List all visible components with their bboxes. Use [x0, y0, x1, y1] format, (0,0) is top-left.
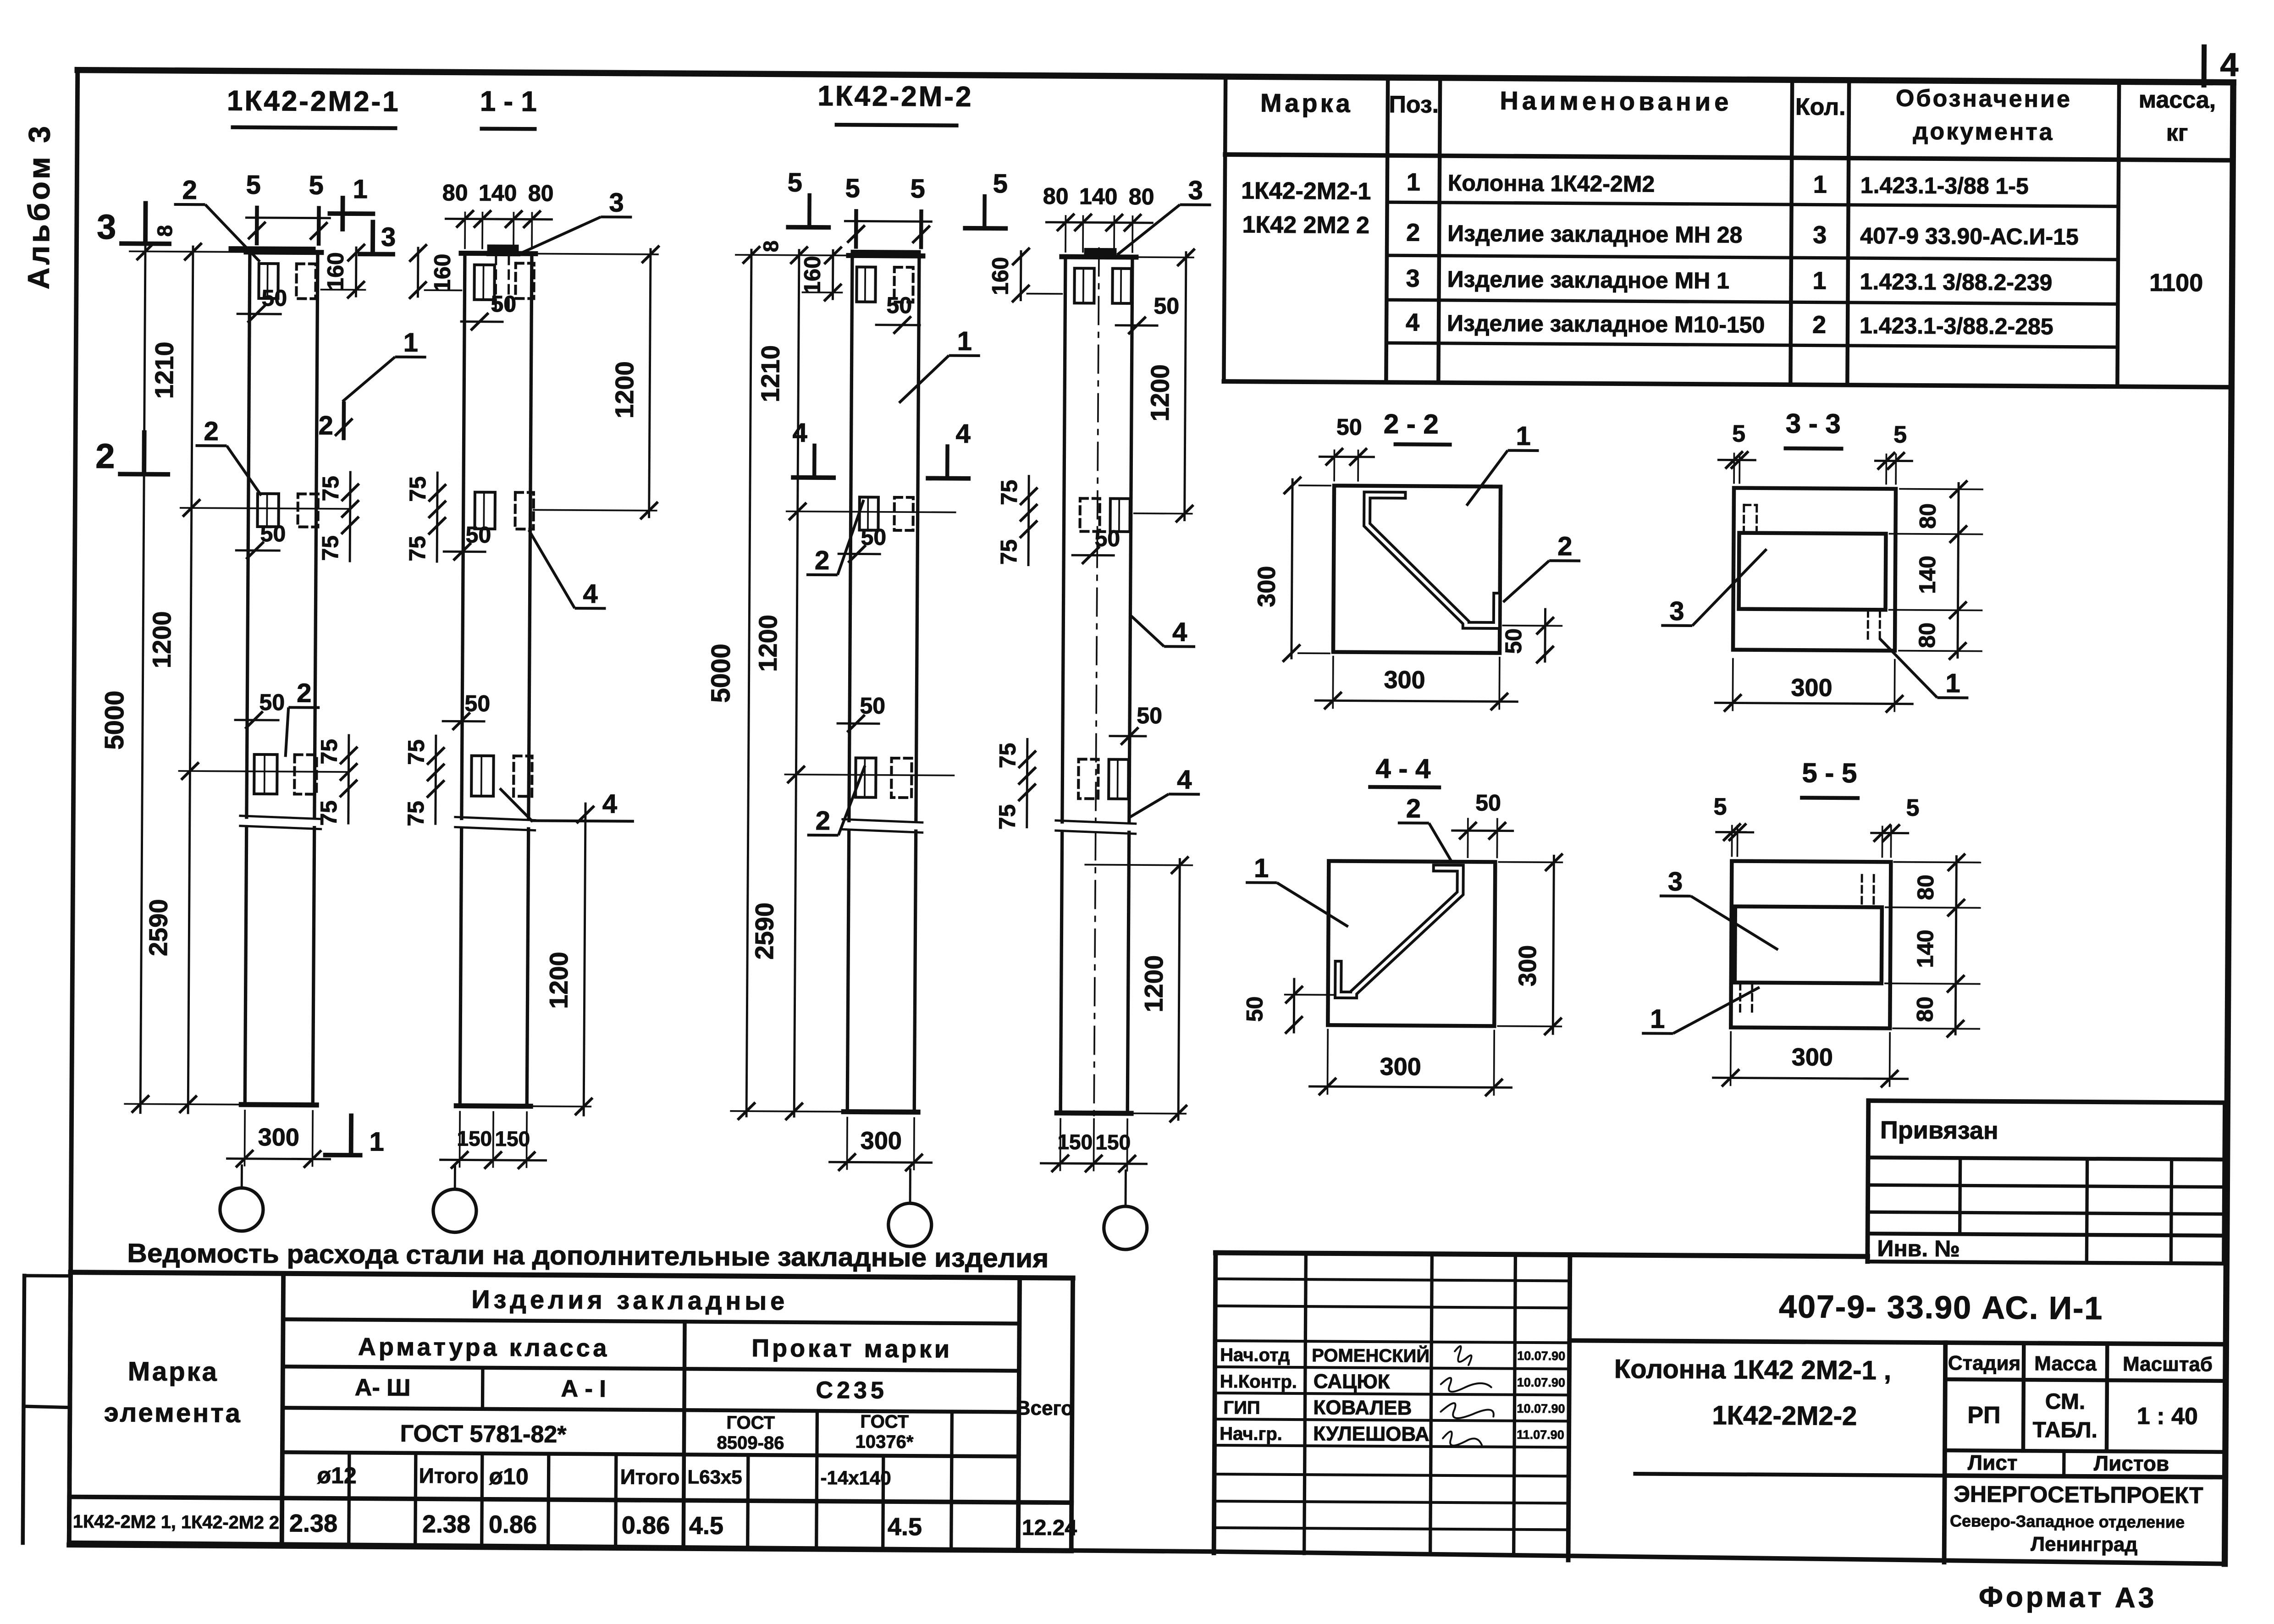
svg-text:2.38: 2.38	[289, 1509, 337, 1537]
svg-text:4: 4	[792, 418, 807, 448]
svg-text:1200: 1200	[753, 615, 783, 672]
centerline column D	[1096, 248, 1099, 822]
5-5 channel pos.3	[1735, 907, 1882, 984]
svg-text:5 - 5: 5 - 5	[1802, 757, 1857, 788]
drawing frame border	[77, 70, 2233, 83]
svg-text:Итого: Итого	[620, 1465, 680, 1489]
section 3-3 square	[1733, 488, 1896, 650]
plate B top2	[515, 263, 534, 298]
title block	[1215, 1253, 1867, 1256]
svg-text:2: 2	[816, 806, 831, 836]
svg-text:Привязан: Привязан	[1880, 1116, 1998, 1144]
svg-text:80: 80	[528, 180, 554, 206]
axis bubble D	[1104, 1206, 1147, 1250]
svg-text:5: 5	[910, 174, 925, 204]
svg-text:КОВАЛЕВ: КОВАЛЕВ	[1313, 1396, 1412, 1419]
svg-text:75: 75	[316, 800, 342, 826]
column 1K42-2M2-1 elevation outline	[247, 252, 250, 817]
signature squiggle 1	[1455, 1346, 1472, 1365]
dim 50 low	[235, 719, 278, 721]
svg-text:80: 80	[1043, 183, 1069, 209]
svg-text:160: 160	[799, 256, 825, 294]
svg-text:50: 50	[1475, 790, 1501, 815]
4-4 dim 300 bottom	[1327, 1029, 1329, 1094]
section mark 1 bottom	[349, 1116, 353, 1153]
svg-text:75: 75	[316, 739, 342, 765]
svg-text:4: 4	[583, 579, 598, 609]
2-2 dim 300 bottom	[1332, 656, 1334, 708]
svg-text:Формат А3: Формат А3	[1979, 1581, 2157, 1614]
plate pos.2 mid dashed	[298, 494, 318, 527]
dim 160 column D	[1020, 252, 1022, 300]
svg-text:1200: 1200	[610, 361, 639, 418]
svg-text:5: 5	[1893, 421, 1907, 448]
svg-text:10.07.90: 10.07.90	[1517, 1402, 1565, 1416]
svg-text:1.423.1-3/88 1-5: 1.423.1-3/88 1-5	[1860, 172, 2029, 199]
svg-text:Прокат марки: Прокат марки	[751, 1334, 952, 1363]
svg-text:11.07.90: 11.07.90	[1517, 1428, 1564, 1442]
svg-text:407-9- 33.90 АС. И-1: 407-9- 33.90 АС. И-1	[1779, 1288, 2103, 1326]
svg-text:4 - 4: 4 - 4	[1375, 753, 1431, 784]
dim 80 140 80 above column B	[464, 213, 466, 248]
dim chain 5000	[140, 247, 145, 1113]
plate pos.2 mid solid	[258, 494, 279, 527]
section marks 4	[812, 446, 817, 476]
svg-text:1210: 1210	[149, 341, 179, 399]
svg-text:4.5: 4.5	[888, 1513, 922, 1541]
specification table	[1224, 77, 1225, 381]
svg-text:407-9 33.90-АС.И-15: 407-9 33.90-АС.И-15	[1860, 223, 2079, 250]
svg-text:А - I: А - I	[561, 1376, 606, 1403]
svg-text:300: 300	[1514, 945, 1542, 986]
4-4 diagonal angle pos.2 (double line)	[1338, 868, 1461, 996]
section 5-5 square	[1731, 861, 1891, 1028]
column 1K42-2M-2 section outline	[1062, 257, 1065, 822]
svg-text:Наименование: Наименование	[1500, 86, 1732, 116]
axis line and bubble column A	[241, 1166, 243, 1189]
svg-text:10.07.90: 10.07.90	[1517, 1376, 1565, 1390]
svg-text:140: 140	[1079, 183, 1118, 209]
svg-text:160: 160	[987, 257, 1013, 295]
svg-text:75: 75	[996, 539, 1021, 565]
svg-text:Инв. №: Инв. №	[1877, 1235, 1960, 1261]
svg-text:8: 8	[759, 240, 783, 252]
svg-text:5000: 5000	[706, 644, 736, 703]
section mark 3 (left)	[143, 204, 148, 242]
3-3 channel pos.3	[1739, 533, 1886, 610]
dim 160 column C	[832, 250, 834, 299]
svg-text:160: 160	[429, 253, 455, 292]
svg-text:Масса: Масса	[2034, 1352, 2097, 1375]
2-2 dim 50 right	[1544, 609, 1546, 661]
svg-text:3: 3	[1406, 264, 1419, 292]
svg-text:РОМЕНСКИЙ: РОМЕНСКИЙ	[1312, 1344, 1430, 1366]
svg-text:4: 4	[1177, 765, 1192, 795]
svg-text:1: 1	[1812, 267, 1826, 294]
svg-text:75: 75	[994, 804, 1020, 830]
svg-text:8: 8	[153, 225, 177, 237]
svg-text:А- Ш: А- Ш	[355, 1374, 411, 1401]
plate D top2	[1112, 269, 1131, 303]
svg-text:ГОСТ 5781-82*: ГОСТ 5781-82*	[400, 1420, 567, 1448]
plate pos.2 top dashed	[296, 264, 315, 298]
svg-text:2: 2	[1557, 531, 1573, 561]
svg-text:80: 80	[1915, 503, 1941, 529]
svg-text:3: 3	[1669, 596, 1684, 626]
svg-text:Изделия закладные: Изделия закладные	[471, 1285, 788, 1316]
plate D top1	[1074, 268, 1094, 303]
svg-text:1200: 1200	[1139, 955, 1168, 1013]
svg-text:75: 75	[995, 743, 1021, 768]
svg-text:РП: РП	[1967, 1402, 2000, 1428]
dim 1200 lower right of column D	[1178, 859, 1180, 1120]
svg-text:документа: документа	[1913, 118, 2054, 146]
svg-text:1210: 1210	[756, 345, 785, 402]
dim chains column C	[746, 250, 751, 1116]
svg-text:50: 50	[1242, 996, 1267, 1022]
svg-text:150: 150	[495, 1127, 530, 1151]
svg-text:3: 3	[97, 208, 116, 247]
svg-text:САЦЮК: САЦЮК	[1314, 1370, 1390, 1393]
anchor dashes below top	[495, 256, 497, 314]
svg-text:Итого: Итого	[419, 1464, 479, 1488]
plate D low1	[1078, 759, 1098, 798]
svg-text:1К42-2М2-1: 1К42-2М2-1	[227, 85, 400, 118]
svg-text:12.24: 12.24	[1022, 1516, 1077, 1541]
5-5 dims 80 140 80 right	[1955, 856, 1956, 1034]
svg-text:1К42-2М2 1, 1К42-2М2 2: 1К42-2М2 1, 1К42-2М2 2	[73, 1512, 279, 1533]
plate C low solid	[856, 758, 876, 797]
svg-text:5: 5	[246, 170, 261, 200]
svg-text:150: 150	[457, 1126, 492, 1150]
svg-text:1К42-2М2-1: 1К42-2М2-1	[1241, 177, 1371, 205]
top plate MN1 edge	[488, 246, 518, 253]
svg-text:8509-86: 8509-86	[717, 1433, 784, 1453]
svg-text:1200: 1200	[1145, 364, 1175, 422]
3-3 dims 80 140 80 right	[1958, 483, 1959, 657]
svg-text:0.86: 0.86	[622, 1512, 670, 1540]
svg-text:300: 300	[1792, 1043, 1833, 1071]
plate C low dashed	[891, 758, 911, 798]
svg-text:С235: С235	[816, 1377, 888, 1404]
svg-text:1К42-2М-2: 1К42-2М-2	[817, 80, 973, 113]
svg-text:1: 1	[1407, 168, 1420, 196]
svg-text:ЭНЕРГОСЕТЬПРОЕКТ: ЭНЕРГОСЕТЬПРОЕКТ	[1954, 1481, 2203, 1508]
svg-text:4: 4	[602, 789, 618, 819]
svg-text:80: 80	[442, 180, 468, 205]
svg-text:5: 5	[1713, 793, 1727, 820]
svg-text:ГИП: ГИП	[1223, 1398, 1260, 1418]
dim 75 75 mid right	[350, 472, 350, 561]
svg-text:300: 300	[1380, 1053, 1421, 1081]
svg-text:Марка: Марка	[128, 1356, 219, 1387]
section 2-2 square	[1333, 485, 1501, 653]
svg-text:80: 80	[1914, 622, 1940, 648]
svg-text:1 - 1: 1 - 1	[480, 86, 537, 118]
svg-text:2: 2	[182, 175, 197, 205]
svg-text:2: 2	[815, 545, 830, 575]
plate C top solid	[856, 267, 875, 302]
dim 300 bottom column A	[244, 1111, 246, 1166]
svg-text:2 - 2: 2 - 2	[1384, 408, 1439, 440]
svg-text:1: 1	[1650, 1004, 1665, 1034]
svg-text:ГОСТ: ГОСТ	[860, 1412, 909, 1432]
2-2 diagonal angle pos.2 (double line)	[1366, 495, 1497, 626]
svg-text:75: 75	[405, 476, 431, 502]
svg-text:4: 4	[955, 419, 971, 449]
svg-text:300: 300	[1384, 666, 1425, 694]
svg-text:300: 300	[258, 1123, 299, 1151]
dim 160 column A	[355, 248, 358, 296]
plate D low2	[1109, 760, 1128, 799]
svg-text:10376*: 10376*	[856, 1431, 914, 1452]
section 4-4 square	[1328, 861, 1495, 1026]
svg-text:5: 5	[1732, 420, 1745, 447]
svg-text:150: 150	[1057, 1130, 1093, 1154]
column 1K42-2M-2 elevation outline	[849, 255, 852, 820]
svg-text:75: 75	[318, 476, 343, 501]
2-2 dim 50 top	[1333, 450, 1335, 480]
svg-text:80: 80	[1129, 184, 1154, 209]
svg-text:2: 2	[297, 678, 312, 708]
svg-text:2590: 2590	[144, 899, 173, 956]
svg-text:СМ.: СМ.	[2045, 1389, 2086, 1414]
dim 50 top column A	[237, 313, 281, 315]
dim 80 140 80 above column D	[1065, 216, 1066, 252]
svg-text:3 - 3: 3 - 3	[1786, 408, 1841, 439]
svg-text:1: 1	[353, 174, 368, 204]
svg-text:1: 1	[1516, 421, 1531, 451]
axis bubble C	[888, 1203, 932, 1247]
svg-text:50: 50	[261, 285, 287, 311]
svg-text:Кол.: Кол.	[1795, 94, 1846, 121]
svg-text:5: 5	[309, 171, 324, 200]
svg-text:ø12: ø12	[317, 1463, 356, 1488]
svg-text:4: 4	[1172, 617, 1187, 647]
svg-text:10.07.90: 10.07.90	[1517, 1349, 1565, 1363]
section mark 3 right	[370, 222, 375, 252]
svg-text:1: 1	[1813, 171, 1827, 198]
plate B low1	[471, 756, 494, 796]
plate C mid solid	[859, 497, 878, 530]
column 1K42-2M2-1 elevation break lines	[240, 816, 321, 819]
svg-text:Стадия: Стадия	[1948, 1352, 2021, 1375]
svg-text:50: 50	[886, 292, 912, 318]
section marks 5 above column A	[255, 208, 259, 243]
svg-text:3: 3	[1188, 176, 1203, 205]
5-5 dim 300 bottom	[1730, 1032, 1732, 1085]
axis bubble B	[433, 1189, 477, 1233]
svg-text:1.423.1-3/88.2-285: 1.423.1-3/88.2-285	[1860, 313, 2053, 339]
svg-text:Лист: Лист	[1968, 1450, 2018, 1475]
svg-text:-14x140: -14x140	[820, 1467, 891, 1489]
svg-text:ø10: ø10	[489, 1464, 528, 1489]
svg-text:Колонна 1К42-2М2: Колонна 1К42-2М2	[1448, 170, 1655, 197]
svg-text:1100: 1100	[2149, 269, 2203, 297]
svg-text:Н.Контр.: Н.Контр.	[1220, 1371, 1297, 1392]
svg-text:1200: 1200	[147, 611, 177, 668]
signature squiggle 3	[1441, 1403, 1494, 1418]
svg-text:3: 3	[1668, 867, 1683, 897]
svg-text:Нач.отд: Нач.отд	[1220, 1345, 1290, 1365]
extension lines column A	[130, 251, 246, 252]
steel consumption table	[71, 1272, 1073, 1278]
svg-text:50: 50	[1137, 703, 1162, 728]
svg-text:Ведомость расхода стали на: Ведомость расхода стали на дополнительны…	[127, 1238, 1049, 1273]
svg-text:2: 2	[204, 416, 219, 446]
binding (privyazan) table	[1868, 1101, 2224, 1102]
svg-text:75: 75	[403, 739, 429, 765]
svg-text:Альбом 3: Альбом 3	[21, 123, 56, 290]
svg-text:5: 5	[993, 169, 1008, 198]
column 1K42-2M-2 elevation break lines	[843, 819, 922, 822]
svg-text:150: 150	[1095, 1130, 1131, 1154]
signature squiggle 2	[1441, 1378, 1491, 1392]
4-4 dim 50 top right	[1467, 819, 1469, 857]
dim 1200 lower right of column B	[584, 804, 585, 1115]
svg-text:75: 75	[404, 536, 430, 562]
dim 1200 right of column D	[1185, 253, 1186, 520]
svg-text:50: 50	[259, 689, 285, 715]
svg-text:50: 50	[860, 693, 885, 719]
5-5 dims 5 top	[1731, 826, 1733, 856]
dim chain 1210/1200/2590	[188, 247, 193, 1113]
svg-text:Изделие закладное М10-150: Изделие закладное М10-150	[1447, 310, 1765, 338]
section mark 2 (left)	[142, 433, 146, 472]
section mark 1 top	[330, 211, 373, 216]
plate C top dashed	[894, 267, 913, 302]
svg-text:4: 4	[2220, 47, 2239, 83]
column 1K42-2M-2 section break lines	[1056, 820, 1136, 824]
svg-text:300: 300	[1253, 566, 1281, 607]
svg-text:Арматура класса: Арматура класса	[358, 1333, 610, 1362]
plate B mid1	[475, 492, 495, 529]
svg-text:масса,: масса,	[2139, 87, 2216, 114]
section marks 5 top (middle group)	[807, 195, 811, 226]
plate B mid2	[515, 492, 533, 529]
signature squiggle 4	[1443, 1431, 1482, 1446]
3-3 dim 300 bottom	[1732, 659, 1733, 710]
svg-text:Листов: Листов	[2094, 1451, 2169, 1475]
plate C mid dashed	[894, 497, 913, 530]
filing margin strip bottom-left	[23, 1276, 24, 1543]
svg-text:1: 1	[1254, 853, 1269, 883]
svg-text:ГОСТ: ГОСТ	[726, 1413, 775, 1433]
svg-text:Масштаб: Масштаб	[2123, 1353, 2213, 1376]
plate B top1	[474, 265, 494, 300]
svg-text:1: 1	[957, 326, 972, 356]
dim 50 mid	[236, 549, 279, 551]
svg-text:50: 50	[1336, 414, 1362, 440]
svg-text:160: 160	[322, 252, 348, 291]
75 75 left of column D	[1028, 476, 1029, 565]
svg-text:3: 3	[609, 187, 624, 217]
svg-text:50: 50	[861, 524, 886, 550]
svg-text:2590: 2590	[750, 903, 779, 960]
2-2 dim 300 left	[1292, 479, 1292, 658]
svg-text:5: 5	[1906, 795, 1919, 821]
svg-text:1 : 40: 1 : 40	[2137, 1403, 2198, 1430]
svg-text:1К42-2М2-2: 1К42-2М2-2	[1712, 1400, 1857, 1431]
dim 1200 right of column B	[649, 249, 651, 517]
svg-text:3: 3	[381, 222, 396, 252]
svg-text:2: 2	[318, 411, 333, 440]
svg-text:1: 1	[369, 1127, 384, 1156]
svg-text:2.38: 2.38	[422, 1510, 470, 1538]
plate pos.2 low solid	[254, 754, 277, 794]
svg-text:Изделие закладное МН 28: Изделие закладное МН 28	[1447, 220, 1743, 248]
svg-text:Обозначение: Обозначение	[1896, 85, 2072, 113]
column section 1-1 break lines	[455, 817, 535, 820]
plate D mid2	[1110, 499, 1130, 532]
svg-text:50: 50	[491, 291, 516, 317]
svg-text:Всего: Всего	[1016, 1397, 1074, 1420]
svg-text:50: 50	[465, 522, 491, 548]
svg-text:Нач.гр.: Нач.гр.	[1220, 1424, 1282, 1444]
svg-text:2: 2	[95, 437, 115, 476]
axis bubble A	[220, 1188, 264, 1231]
svg-text:50: 50	[260, 521, 286, 546]
svg-text:75: 75	[403, 801, 429, 826]
svg-text:элемента: элемента	[104, 1398, 242, 1428]
svg-text:80: 80	[1913, 875, 1938, 900]
svg-text:5000: 5000	[99, 690, 130, 749]
svg-text:1: 1	[403, 328, 419, 358]
svg-text:50: 50	[464, 691, 490, 716]
svg-text:L63x5: L63x5	[687, 1466, 742, 1488]
svg-text:3: 3	[1813, 221, 1827, 248]
svg-text:50: 50	[1094, 525, 1120, 551]
top plate bar column D	[1085, 249, 1115, 257]
svg-text:75: 75	[996, 479, 1022, 505]
column C top plate bar	[853, 250, 918, 255]
plate pos.2 top solid	[259, 264, 278, 298]
svg-text:КУЛЕШОВА: КУЛЕШОВА	[1313, 1422, 1430, 1445]
svg-text:75: 75	[317, 535, 343, 561]
svg-text:5: 5	[788, 168, 803, 198]
plate D mid1	[1080, 498, 1099, 531]
svg-text:2: 2	[1406, 219, 1420, 246]
svg-text:1: 1	[1945, 668, 1960, 698]
svg-text:Ленинград: Ленинград	[2031, 1533, 2137, 1556]
plate pos.2 low dashed	[294, 754, 316, 794]
svg-text:1К42 2М2 2: 1К42 2М2 2	[1242, 211, 1369, 239]
svg-text:Изделие закладное МН 1: Изделие закладное МН 1	[1447, 266, 1730, 294]
column section 1-1 outline	[462, 253, 465, 819]
svg-text:50: 50	[1154, 293, 1179, 319]
svg-text:50: 50	[1501, 628, 1526, 654]
plate B low2	[513, 756, 532, 796]
svg-text:2: 2	[1812, 311, 1826, 338]
svg-text:2: 2	[1406, 793, 1421, 823]
svg-text:140: 140	[479, 180, 517, 206]
svg-text:1.423.1 3/88.2-239: 1.423.1 3/88.2-239	[1860, 269, 2052, 295]
section mark 2 above mid	[342, 403, 346, 438]
sheet number tick	[2202, 47, 2207, 85]
dim 75 75 low right	[348, 735, 349, 823]
svg-text:Марка: Марка	[1260, 88, 1353, 118]
svg-text:4.5: 4.5	[689, 1512, 723, 1539]
svg-text:Северо-Западное отделение: Северо-Западное отделение	[1950, 1511, 2185, 1531]
svg-text:Поз.: Поз.	[1389, 91, 1439, 118]
svg-text:140: 140	[1915, 556, 1940, 594]
4-4 dim 50 left bottom	[1293, 979, 1296, 1032]
svg-text:300: 300	[1791, 674, 1832, 702]
svg-text:80: 80	[1912, 996, 1937, 1022]
svg-text:ТАБЛ.: ТАБЛ.	[2032, 1418, 2097, 1442]
4-4 dim 300 right	[1553, 856, 1554, 1034]
svg-text:кг: кг	[2166, 120, 2188, 146]
